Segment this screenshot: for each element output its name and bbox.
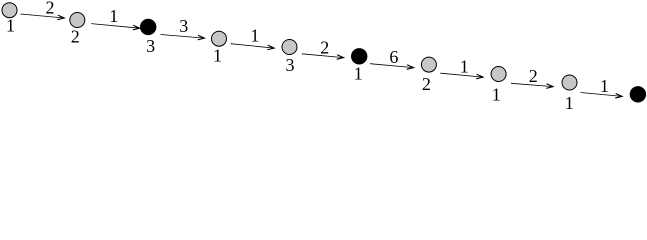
svg-text:1: 1 <box>354 64 363 84</box>
wire edge 4->5 <box>231 44 275 48</box>
svg-text:2: 2 <box>529 66 538 86</box>
svg-text:3: 3 <box>179 16 188 36</box>
svg-text:1: 1 <box>460 57 469 77</box>
svg-text:1: 1 <box>492 85 501 105</box>
node 3 (black) <box>141 19 156 34</box>
svg-text:1: 1 <box>213 45 222 65</box>
wire edge 1->2 <box>20 14 64 18</box>
node 9 (gray) <box>562 75 577 90</box>
node 1 (gray) <box>2 3 17 18</box>
node 10 (black) <box>630 87 645 102</box>
svg-text:2: 2 <box>71 27 80 47</box>
node 4 (gray) <box>212 31 227 46</box>
wire edge 5->6 <box>302 54 344 58</box>
wire edge 8->9 <box>511 83 553 86</box>
wire edge 2->3 <box>91 24 139 29</box>
wire edge 6->7 <box>370 64 414 68</box>
svg-text:6: 6 <box>389 47 398 67</box>
node 5 (gray) <box>282 40 297 55</box>
svg-text:2: 2 <box>422 74 431 94</box>
svg-text:3: 3 <box>146 36 155 56</box>
wire edge 9->10 <box>581 93 623 97</box>
wire edge 7->8 <box>440 73 483 77</box>
svg-text:1: 1 <box>109 6 118 26</box>
svg-text:2: 2 <box>320 37 329 57</box>
svg-text:3: 3 <box>286 55 295 75</box>
node 2 (gray) <box>70 13 85 28</box>
svg-text:2: 2 <box>46 0 55 18</box>
svg-text:1: 1 <box>565 93 574 113</box>
svg-text:1: 1 <box>600 76 609 96</box>
svg-text:1: 1 <box>250 26 259 46</box>
svg-text:1: 1 <box>6 16 15 36</box>
node 6 (black) <box>352 49 367 64</box>
wire edge 3->4 <box>161 35 205 39</box>
node 7 (gray) <box>421 57 436 72</box>
node 8 (gray) <box>491 67 506 82</box>
